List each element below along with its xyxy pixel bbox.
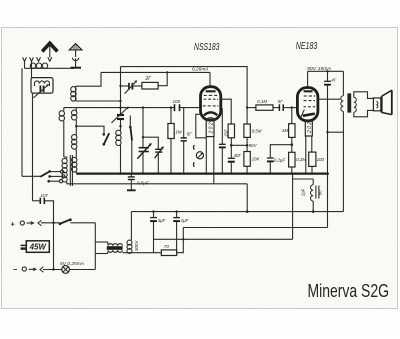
tube1 left-bottom lead — [196, 114, 207, 138]
svg-text:2Γ: 2Γ — [145, 76, 153, 82]
node — [246, 210, 249, 213]
wire jog y=132 — [328, 131, 344, 133]
wire antenna selector switch (left) — [22, 175, 40, 177]
trimmer capacitor (bold) — [112, 107, 129, 123]
node — [119, 85, 121, 87]
wire 90V line — [308, 70, 344, 72]
wire down to transformer — [63, 121, 65, 157]
wire from node down — [142, 108, 144, 148]
svg-text:202: 202 — [307, 122, 313, 134]
tube1 base pin to bus2 — [213, 137, 215, 184]
wire resistor 70 right up — [177, 228, 184, 253]
svg-text:70: 70 — [164, 244, 170, 249]
wire vertical x=120.5 — [120, 67, 122, 114]
wire secondary to speaker (staircase) — [354, 92, 374, 99]
line y=227.5 — [183, 227, 327, 229]
wire node to divider — [231, 144, 247, 146]
trap trimmer capacitor — [34, 84, 49, 98]
small curl loops — [59, 111, 64, 116]
wire resistor right up to y72 line — [158, 72, 167, 85]
svg-text:0,26mA: 0,26mA — [192, 67, 209, 72]
node — [166, 71, 168, 73]
resistor 100 (cathode) — [309, 152, 316, 166]
vibrator transformer T1 — [107, 242, 123, 254]
svg-text:1M: 1M — [175, 130, 182, 135]
resistor R 2Γ — [142, 82, 158, 89]
wire AVC line y=66.6 — [121, 67, 248, 108]
resistor 70 — [161, 250, 176, 256]
variable capacitor C-tune2 — [155, 146, 164, 173]
resistor 1M — [168, 108, 174, 174]
left winding top lead — [63, 108, 65, 111]
tube2 base — [305, 120, 312, 136]
tube1 top cap stub — [209, 72, 211, 88]
bus2 (heater) — [67, 183, 247, 185]
battery 45W — [21, 241, 50, 253]
antenna plug sockets — [23, 57, 41, 61]
svg-text:0,2µF: 0,2µF — [274, 158, 286, 163]
capacitor 100 (series in line) — [175, 104, 180, 111]
node — [230, 144, 233, 147]
node — [52, 222, 54, 224]
tube1 anode dashes — [203, 95, 219, 106]
transformer core — [69, 155, 71, 186]
OT primary winding — [341, 96, 344, 112]
wire trimmer to coil — [120, 120, 122, 131]
trimmer capacitor (2Γ parallel) — [121, 80, 142, 94]
OT core — [347, 93, 351, 112]
speaker cone — [382, 90, 392, 114]
resistor 0,2M — [289, 152, 295, 173]
lamp — [62, 266, 96, 274]
wire L2 top to grid-cap line — [76, 72, 101, 86]
plus terminal — [11, 219, 60, 228]
capacitor 3uF — [150, 212, 157, 253]
tube1 cathode — [204, 112, 217, 115]
svg-text:NSS183: NSS183 — [194, 42, 220, 53]
svg-text:25Γ: 25Γ — [223, 129, 228, 138]
node bus1 end — [326, 172, 329, 175]
svg-text:100: 100 — [317, 157, 325, 162]
node choke bottom — [312, 210, 315, 213]
svg-text:−: − — [13, 265, 18, 274]
svg-text:0,1M: 0,1M — [257, 99, 267, 104]
choke winding — [310, 179, 313, 212]
OT secondary winding — [354, 97, 357, 112]
wire socket2 down to trap box — [31, 61, 33, 77]
svg-text:5Γ: 5Γ — [187, 132, 193, 137]
wire from bus vertical to choke — [292, 174, 294, 240]
transformer stubs — [95, 241, 108, 243]
wire top grid line y=72.4 — [101, 71, 210, 73]
left winding (to heater bus) — [62, 157, 67, 184]
resistor 0,1M — [256, 105, 273, 110]
svg-text:3µF: 3µF — [158, 218, 166, 223]
tube2 base pin to resistor 100 — [311, 136, 313, 152]
svg-text:40Γ: 40Γ — [234, 153, 242, 158]
node — [326, 131, 328, 133]
tube1 base pin to bus1 — [205, 137, 207, 174]
node — [152, 210, 154, 212]
right winding column x=76.3 — [72, 108, 77, 174]
node — [246, 106, 248, 108]
wire tap to switch S1 — [76, 126, 104, 133]
wire — [247, 107, 256, 109]
node — [326, 70, 328, 72]
wire bus to resistor 70 — [123, 252, 162, 254]
tube2 anode bar — [304, 90, 313, 92]
resistor 4M — [289, 108, 295, 153]
wire — [230, 138, 232, 158]
wire OT primary bottom down — [342, 111, 344, 211]
capacitor 2uF — [173, 212, 180, 253]
node coil tap — [75, 125, 77, 127]
minus terminal — [13, 265, 62, 274]
capacitor 4Γ — [324, 71, 331, 84]
svg-text:202: 202 — [208, 122, 214, 134]
svg-text:0,2M: 0,2M — [296, 157, 306, 162]
svg-text:2µF: 2µF — [180, 218, 189, 223]
node — [291, 143, 294, 146]
coil L2 (top RF winding) — [71, 86, 76, 101]
resistor 10K — [244, 152, 250, 174]
svg-text:Minerva S2G: Minerva S2G — [308, 280, 390, 301]
antenna trap box — [31, 78, 53, 94]
svg-text:100: 100 — [173, 99, 181, 104]
tube1 top cap bar — [206, 90, 216, 92]
node — [175, 210, 177, 212]
variable capacitor C-tune1 — [137, 143, 151, 174]
wire signal line left — [64, 107, 175, 109]
antenna symbol (bold arrow) — [42, 43, 57, 61]
svg-text:6V 0,25mA: 6V 0,25mA — [60, 261, 84, 266]
wire anode — [221, 99, 231, 124]
capacitor 0,2uF — [267, 145, 292, 174]
wire: long vertical from trap box — [32, 93, 34, 201]
speaker coil squiggle — [376, 102, 378, 108]
tube2 grid dashes — [304, 96, 316, 107]
svg-text:300V: 300V — [134, 240, 139, 251]
HT line y=211.6 — [131, 211, 343, 213]
capacitor 107 — [33, 198, 54, 270]
svg-text:5Γ: 5Γ — [278, 99, 283, 104]
output transformer primary lead — [342, 71, 344, 96]
node — [291, 106, 293, 108]
svg-text:0,5µF: 0,5µF — [137, 181, 150, 186]
choke core bars — [315, 186, 317, 199]
node — [119, 125, 121, 127]
speaker diaphragm bar — [380, 96, 382, 112]
switch S2 — [129, 116, 132, 174]
wire y=101 — [76, 100, 121, 102]
tube2 top stub — [307, 71, 309, 89]
switch power — [59, 218, 96, 225]
svg-text:60: 60 — [318, 190, 323, 195]
resistor 0,5M — [244, 108, 250, 152]
svg-text:4Γ: 4Γ — [331, 78, 336, 83]
svg-text:45W: 45W — [29, 243, 47, 252]
svg-text:90V: 90V — [249, 143, 258, 148]
earth symbol — [69, 44, 82, 68]
wire bus2 right end down — [246, 184, 248, 212]
capacitor tube1 cathode — [219, 108, 226, 173]
osc coil — [116, 130, 121, 173]
faint scan noise — [0, 0, 1, 1]
wire anode tube2 to OT — [318, 98, 340, 100]
pickup jack hooks — [192, 145, 195, 167]
switch S-ant — [40, 170, 65, 183]
node — [246, 144, 249, 147]
svg-text:NE183: NE183 — [296, 41, 318, 52]
svg-text:107: 107 — [41, 193, 49, 198]
wire 4Γ down long vertical — [327, 85, 329, 228]
pickup symbol (circle with needle) — [196, 152, 203, 159]
capacitor 5Γ series — [279, 104, 283, 111]
line y=239.3 — [154, 238, 293, 240]
capacitor 5Γ (grid) — [181, 108, 187, 174]
tube1 base — [206, 120, 214, 137]
wire — [273, 107, 279, 109]
bus1 (chassis, bold) — [76, 173, 327, 175]
resistor 25Γ — [228, 124, 234, 138]
svg-text:4M: 4M — [282, 128, 288, 133]
secondary 300V winding — [127, 212, 132, 254]
capacitor 40Γ — [228, 158, 235, 173]
node — [119, 100, 121, 102]
wire to var cap 2 — [143, 137, 158, 149]
node — [52, 268, 54, 270]
nodes on signal line — [119, 106, 121, 108]
trap coil loops — [35, 81, 50, 86]
wire socket row to earth bar — [24, 61, 26, 68]
switch S1 — [103, 133, 110, 146]
speaker driver box — [373, 98, 381, 111]
tube2 envelope — [297, 88, 318, 121]
wire — [311, 166, 313, 173]
svg-text:10K: 10K — [252, 157, 261, 162]
tube2 base pin to bus1 — [305, 136, 307, 174]
capacitor 0,5uF below bus — [127, 174, 136, 191]
bus1 junction nodes — [119, 172, 313, 174]
svg-text:+: + — [11, 219, 16, 228]
wire: long vertical from antenna sockets — [21, 68, 23, 176]
node — [182, 238, 184, 240]
svg-text:2µF: 2µF — [301, 188, 306, 197]
antenna series coil — [30, 63, 47, 68]
wire to tube2 grid — [283, 107, 297, 109]
tube2 cathode — [303, 114, 315, 116]
wire vertical to vibrator transformer — [94, 223, 96, 270]
tube1 envelope — [201, 87, 221, 121]
svg-text:0,5M: 0,5M — [252, 129, 262, 134]
